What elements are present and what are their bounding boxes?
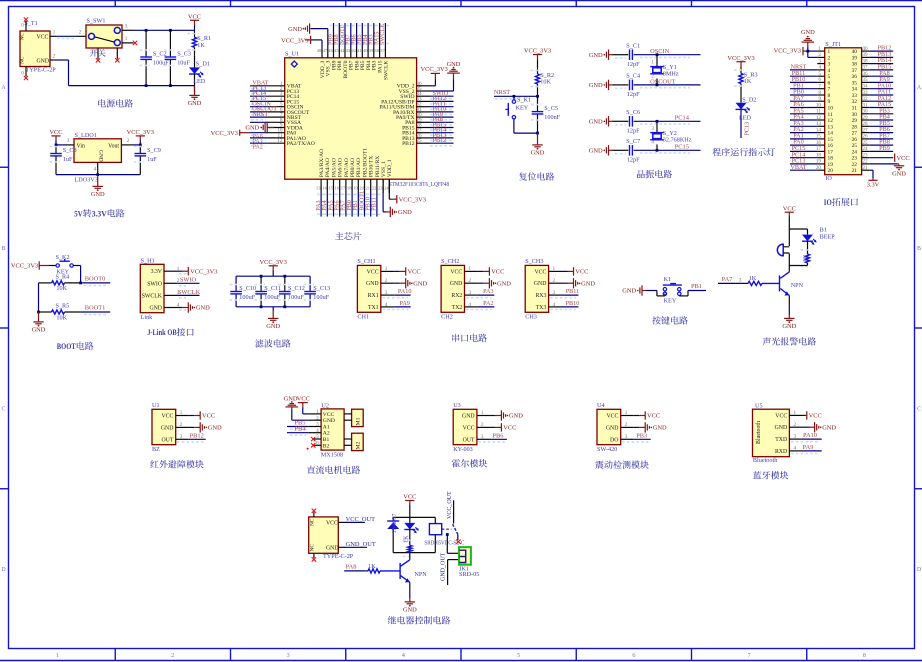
JT1 row 12/29 bbox=[817, 119, 824, 121]
svg-text:VCC: VCC bbox=[37, 34, 49, 40]
svg-text:3.3V: 3.3V bbox=[151, 269, 163, 275]
relay top/bottom rails bbox=[393, 516, 435, 518]
ground bbox=[38, 312, 40, 321]
svg-text:PB2/BOOT1: PB2/BOOT1 bbox=[362, 148, 368, 177]
svg-text:MX1508: MX1508 bbox=[321, 451, 343, 458]
svg-text:VCC: VCC bbox=[897, 155, 910, 162]
svg-text:18: 18 bbox=[347, 185, 352, 190]
svg-text:2: 2 bbox=[79, 30, 82, 36]
power VCC_3V3 bbox=[136, 135, 145, 137]
svg-text:Bluetooth: Bluetooth bbox=[753, 457, 778, 464]
svg-text:S_U1: S_U1 bbox=[285, 51, 299, 58]
svg-text:GND: GND bbox=[91, 191, 105, 198]
U1 pin 25 PB12 bbox=[417, 142, 430, 144]
wire T1 VCC to SW1 bbox=[57, 38, 74, 40]
svg-text:VCC: VCC bbox=[503, 425, 516, 432]
svg-text:PC15: PC15 bbox=[675, 144, 689, 151]
power VCC pin1 S_CH1 bbox=[394, 270, 400, 272]
svg-text:TX1: TX1 bbox=[368, 305, 379, 311]
svg-text:39: 39 bbox=[862, 52, 868, 58]
svg-text:PA7/AO: PA7/AO bbox=[344, 158, 350, 177]
net PC14 bbox=[634, 120, 701, 122]
U1 pin 24 VDD_1 bbox=[388, 179, 390, 193]
svg-text:25: 25 bbox=[862, 140, 868, 146]
U1 pin 5 OSCIN bbox=[267, 106, 284, 108]
svg-text:31: 31 bbox=[852, 106, 858, 112]
svg-text:VCC: VCC bbox=[403, 494, 416, 501]
svg-text:39: 39 bbox=[852, 55, 858, 61]
svg-text:PB12: PB12 bbox=[433, 137, 447, 144]
svg-text:4: 4 bbox=[794, 446, 797, 452]
svg-text:1K: 1K bbox=[749, 275, 757, 282]
svg-text:S_D2: S_D2 bbox=[742, 96, 756, 103]
svg-text:S_SW1: S_SW1 bbox=[87, 17, 106, 24]
svg-text:PB6: PB6 bbox=[492, 432, 503, 439]
svg-text:U2: U2 bbox=[321, 402, 329, 409]
ground pin2 U4 bbox=[634, 426, 640, 428]
svg-text:VCC: VCC bbox=[606, 414, 618, 420]
U1 pin 29 PA8 bbox=[417, 121, 430, 123]
svg-text:PB0/AO: PB0/AO bbox=[350, 158, 356, 177]
svg-text:VDD_1: VDD_1 bbox=[387, 159, 393, 177]
GND bbox=[177, 307, 183, 309]
svg-text:VCC_OUT: VCC_OUT bbox=[346, 516, 376, 523]
svg-text:3: 3 bbox=[67, 138, 70, 144]
U1 pin 36 VDD_2 bbox=[417, 85, 430, 87]
svg-text:VCC: VCC bbox=[367, 269, 379, 275]
svg-text:IO: IO bbox=[825, 175, 832, 182]
svg-text:1: 1 bbox=[651, 60, 654, 66]
svg-text:1uF: 1uF bbox=[147, 156, 157, 163]
U1 pin 42 PB6 bbox=[356, 47, 358, 58]
power VCC_3V3 row1 bbox=[803, 50, 808, 52]
svg-text:1K: 1K bbox=[802, 254, 809, 262]
svg-text:4: 4 bbox=[468, 302, 471, 308]
svg-text:18: 18 bbox=[828, 156, 834, 162]
svg-text:SWCLK: SWCLK bbox=[383, 61, 389, 81]
svg-text:PB10: PB10 bbox=[566, 300, 580, 307]
power VCC_3V3 bbox=[269, 265, 278, 267]
net PC15 bbox=[634, 149, 701, 151]
capacitor S_C12 100nF bbox=[284, 276, 286, 291]
JT1 row 20/21 bbox=[817, 169, 824, 171]
svg-text:5: 5 bbox=[818, 71, 821, 77]
svg-text:S_R5: S_R5 bbox=[56, 303, 70, 310]
caption 红外避障模块 bbox=[150, 460, 158, 468]
svg-text:S_CH2: S_CH2 bbox=[441, 258, 459, 265]
svg-text:GND: GND bbox=[98, 150, 104, 162]
svg-text:VCC: VCC bbox=[463, 425, 475, 431]
svg-text:Link: Link bbox=[141, 314, 154, 321]
JT1 row 7/34 bbox=[817, 88, 824, 90]
svg-text:SRD-05: SRD-05 bbox=[459, 571, 479, 578]
svg-text:12pF: 12pF bbox=[627, 91, 640, 98]
svg-text:VCC_3V3: VCC_3V3 bbox=[190, 268, 217, 275]
svg-text:14: 14 bbox=[828, 131, 834, 137]
capacitor S_C6 12pF bbox=[608, 116, 610, 126]
wire T1 GND down to bottom rail bbox=[56, 59, 69, 61]
svg-text:B2: B2 bbox=[323, 443, 330, 449]
svg-text:40: 40 bbox=[363, 48, 368, 53]
svg-text:S_JT1: S_JT1 bbox=[825, 41, 841, 48]
transistor NPN bbox=[788, 266, 790, 272]
top rail VCC bbox=[133, 29, 195, 31]
svg-text:B1: B1 bbox=[820, 226, 827, 233]
VSS_2 to GND bbox=[430, 90, 454, 92]
svg-text:S_LDO1: S_LDO1 bbox=[75, 132, 97, 139]
U1 pin 32 PA11/USB/DM bbox=[417, 106, 430, 108]
svg-text:6: 6 bbox=[632, 653, 635, 659]
svg-text:5V: 5V bbox=[74, 209, 83, 218]
connector S_CH3 bbox=[525, 265, 548, 312]
net PB5 bbox=[287, 426, 308, 428]
svg-text:GND: GND bbox=[403, 607, 417, 614]
power VCC row18 bbox=[869, 157, 893, 159]
JT1 row 9/32 bbox=[817, 100, 824, 102]
relay switch bbox=[442, 528, 452, 530]
svg-text:12pF: 12pF bbox=[627, 157, 640, 164]
svg-text:3: 3 bbox=[287, 653, 290, 659]
crystal S_Y1 8MHz bbox=[656, 53, 659, 56]
net PA9 bbox=[394, 306, 410, 308]
svg-text:PC14: PC14 bbox=[675, 115, 690, 122]
svg-text:CH3: CH3 bbox=[525, 314, 537, 321]
svg-text:TX2: TX2 bbox=[452, 305, 463, 311]
svg-text:100uF: 100uF bbox=[264, 294, 280, 301]
svg-text:100nF: 100nF bbox=[544, 114, 560, 121]
svg-text:PB11/RX: PB11/RX bbox=[375, 156, 381, 178]
svg-text:2: 2 bbox=[818, 52, 821, 58]
JT1 row 6/35 bbox=[817, 81, 824, 83]
svg-text:2: 2 bbox=[828, 55, 831, 61]
svg-text:10K: 10K bbox=[56, 285, 67, 292]
capacitor S_C3 10uF bbox=[169, 30, 171, 57]
svg-text:S_C5: S_C5 bbox=[544, 105, 558, 112]
svg-text:34: 34 bbox=[852, 87, 858, 93]
svg-text:PA2: PA2 bbox=[483, 300, 493, 307]
node split bbox=[789, 228, 807, 230]
svg-text:30: 30 bbox=[852, 112, 858, 118]
svg-text:NC: NC bbox=[309, 518, 315, 526]
svg-text:3: 3 bbox=[818, 58, 821, 64]
svg-text:100uF: 100uF bbox=[313, 294, 329, 301]
resistor S_R1 1K bbox=[194, 30, 196, 37]
svg-text:B: B bbox=[1, 246, 5, 252]
base resistor 1K bbox=[718, 282, 744, 284]
U1 pin 6 OSCOUT bbox=[267, 111, 284, 113]
svg-text:B1: B1 bbox=[323, 437, 330, 443]
U1 pin 35 VSS_2 bbox=[417, 90, 430, 92]
svg-text:PA9: PA9 bbox=[803, 444, 814, 451]
svg-text:2: 2 bbox=[553, 278, 556, 284]
svg-text:SW-420: SW-420 bbox=[597, 446, 617, 453]
svg-text:NPN: NPN bbox=[414, 571, 427, 578]
JT1 row 16/25 bbox=[817, 144, 824, 146]
svg-text:KEY: KEY bbox=[516, 104, 529, 111]
svg-text:2: 2 bbox=[625, 422, 628, 428]
svg-text:LED: LED bbox=[193, 78, 206, 85]
svg-text:VCC: VCC bbox=[575, 269, 588, 276]
net PC13 bbox=[740, 112, 742, 138]
svg-text:SWIO: SWIO bbox=[180, 277, 197, 284]
svg-text:SRD-05VDC-SL-C: SRD-05VDC-SL-C bbox=[424, 539, 464, 546]
svg-text:GND: GND bbox=[161, 425, 174, 431]
caption 滤波电路 bbox=[255, 339, 263, 347]
svg-text:VCC_3V3: VCC_3V3 bbox=[421, 66, 448, 73]
svg-text:GND: GND bbox=[534, 281, 547, 287]
svg-text:2: 2 bbox=[794, 422, 797, 428]
MCU S_U1 STM32F103C8T6_LQFP48 bbox=[285, 58, 417, 179]
net PB10 bbox=[562, 306, 578, 308]
JT1 row 4/37 bbox=[817, 69, 824, 71]
svg-text:24: 24 bbox=[852, 149, 858, 155]
ground bbox=[788, 296, 790, 305]
svg-text:SWIO: SWIO bbox=[147, 281, 162, 287]
svg-text:NRST: NRST bbox=[252, 111, 268, 118]
svg-text:PB11: PB11 bbox=[371, 197, 378, 211]
JT1 row 19/22 bbox=[817, 163, 824, 165]
JT1 row 1/40 bbox=[817, 50, 824, 52]
svg-text:13: 13 bbox=[828, 124, 834, 130]
svg-text:NPN: NPN bbox=[791, 282, 804, 289]
svg-text:VCC: VCC bbox=[202, 413, 215, 420]
svg-text:SWCLK: SWCLK bbox=[178, 289, 201, 296]
svg-text:GND: GND bbox=[326, 546, 339, 552]
net PA2 bbox=[478, 306, 494, 308]
svg-text:5: 5 bbox=[517, 653, 520, 659]
net PB3 bbox=[634, 438, 651, 440]
svg-text:GND_OUT: GND_OUT bbox=[441, 552, 447, 581]
svg-text:S_CH3: S_CH3 bbox=[525, 258, 543, 265]
svg-text:1K: 1K bbox=[744, 78, 752, 85]
caption 震动检测模块 bbox=[595, 461, 603, 469]
svg-text:GND: GND bbox=[413, 280, 427, 287]
svg-text:23: 23 bbox=[378, 185, 383, 190]
svg-text:2: 2 bbox=[53, 53, 56, 59]
ground pin2 S_CH2 bbox=[478, 282, 484, 284]
caption 按键电路 bbox=[652, 316, 661, 324]
U1 pin 43 PB7 bbox=[350, 47, 352, 58]
power VCC pin1 S_CH2 bbox=[478, 270, 484, 272]
svg-text:3: 3 bbox=[180, 434, 183, 440]
svg-text:3: 3 bbox=[553, 290, 556, 296]
U1 pin 30 PA9/TX bbox=[417, 116, 430, 118]
svg-text:GND: GND bbox=[782, 323, 796, 330]
svg-text:1: 1 bbox=[481, 410, 484, 416]
svg-text:PA9: PA9 bbox=[399, 300, 409, 307]
svg-text:GND: GND bbox=[801, 29, 815, 36]
svg-text:16: 16 bbox=[335, 185, 340, 190]
svg-text:PA4/AO: PA4/AO bbox=[325, 158, 331, 177]
JT1 row 17/24 bbox=[817, 150, 824, 152]
svg-text:GND: GND bbox=[245, 125, 259, 132]
capacitor S_C5 100nF bbox=[537, 96, 539, 111]
power GND row19 bbox=[869, 163, 897, 165]
resistor S_R3 1K bbox=[740, 72, 742, 75]
module U4 SW-420 bbox=[597, 409, 621, 444]
svg-text:2: 2 bbox=[127, 138, 130, 144]
svg-text:BOOT1: BOOT1 bbox=[85, 305, 106, 312]
svg-text:DO: DO bbox=[610, 437, 618, 443]
svg-text:13: 13 bbox=[316, 185, 321, 190]
VDD_1 to VCC_3V3 bbox=[388, 179, 390, 199]
svg-text:3: 3 bbox=[651, 126, 654, 132]
U1 pin 2 PC13 bbox=[267, 90, 284, 92]
svg-text:GND: GND bbox=[589, 148, 603, 155]
svg-text:S_R4: S_R4 bbox=[56, 274, 70, 281]
svg-text:PB10/TX: PB10/TX bbox=[369, 156, 375, 177]
svg-text:GND: GND bbox=[581, 280, 595, 287]
caption 晶振电路 bbox=[637, 170, 645, 178]
svg-text:U5: U5 bbox=[755, 403, 763, 410]
svg-text:12: 12 bbox=[277, 138, 283, 144]
svg-text:GND: GND bbox=[775, 425, 788, 431]
svg-text:BZ: BZ bbox=[152, 446, 160, 453]
VSS_3 to GND bbox=[327, 29, 329, 47]
svg-text:3: 3 bbox=[481, 434, 484, 440]
U1 pin 9 VDDA bbox=[267, 127, 284, 129]
svg-text:PA8: PA8 bbox=[346, 564, 357, 571]
svg-text:12pF: 12pF bbox=[627, 61, 640, 68]
svg-text:100uF: 100uF bbox=[153, 59, 169, 66]
svg-text:OSCIN: OSCIN bbox=[650, 48, 670, 55]
svg-text:A: A bbox=[1, 85, 6, 91]
svg-text:10uF: 10uF bbox=[177, 59, 190, 66]
svg-text:34: 34 bbox=[862, 84, 868, 90]
svg-text:VCC_3V3: VCC_3V3 bbox=[281, 37, 308, 44]
U1 pin 15 PA5/AO bbox=[333, 179, 335, 193]
caption 蓝牙模块 bbox=[753, 471, 761, 479]
svg-text:S_C7: S_C7 bbox=[626, 138, 640, 145]
svg-text:S_C3: S_C3 bbox=[177, 51, 191, 58]
svg-text:U3: U3 bbox=[453, 402, 461, 409]
svg-text:GND: GND bbox=[32, 327, 46, 334]
svg-text:35: 35 bbox=[862, 77, 868, 83]
svg-text:OUT: OUT bbox=[161, 437, 173, 443]
svg-text:C: C bbox=[1, 407, 5, 413]
svg-text:41: 41 bbox=[357, 48, 362, 53]
svg-text:VCC: VCC bbox=[809, 413, 822, 420]
net PB12 bbox=[189, 438, 206, 440]
svg-text:23: 23 bbox=[862, 153, 868, 159]
power VCC pin1 S_CH3 bbox=[562, 270, 568, 272]
U1 pin 27 PB14 bbox=[417, 132, 430, 134]
svg-text:NC: NC bbox=[309, 544, 315, 552]
svg-text:GND: GND bbox=[653, 425, 667, 432]
svg-text:29: 29 bbox=[852, 118, 858, 124]
svg-text:4: 4 bbox=[828, 68, 831, 74]
svg-text:40: 40 bbox=[852, 49, 858, 55]
svg-text:4: 4 bbox=[818, 65, 821, 71]
svg-text:26: 26 bbox=[852, 137, 858, 143]
svg-text:12: 12 bbox=[828, 118, 834, 124]
capacitor S_C2 100uF bbox=[145, 30, 147, 57]
svg-text:2: 2 bbox=[171, 653, 174, 659]
svg-text:GND: GND bbox=[284, 396, 298, 403]
svg-text:S_C11: S_C11 bbox=[264, 285, 281, 292]
svg-text:BEEP: BEEP bbox=[820, 234, 836, 241]
svg-text:2: 2 bbox=[481, 422, 484, 428]
U1 pin 4 PC15 bbox=[267, 100, 284, 102]
net BOOT1 bbox=[81, 311, 111, 313]
svg-text:VCC_OUT: VCC_OUT bbox=[447, 491, 453, 519]
key circuit K1 bbox=[641, 285, 643, 295]
capacitor S_C8 1uF bbox=[55, 145, 57, 154]
power VCC_3V3 bbox=[533, 54, 542, 56]
power VCC pin1 U1 bbox=[189, 415, 195, 417]
svg-text:GND: GND bbox=[37, 58, 50, 64]
svg-text:PB1: PB1 bbox=[691, 283, 702, 290]
svg-text:CH2: CH2 bbox=[441, 314, 453, 321]
U1 pin 12 PA2/TX/AO bbox=[267, 142, 284, 144]
svg-text:27: 27 bbox=[862, 127, 868, 133]
svg-text:PB1/AO: PB1/AO bbox=[356, 158, 362, 177]
svg-text:31: 31 bbox=[862, 102, 868, 108]
svg-text:1K: 1K bbox=[403, 535, 410, 543]
svg-text:22: 22 bbox=[372, 185, 377, 190]
svg-text:BOOT: BOOT bbox=[57, 342, 76, 351]
svg-text:15: 15 bbox=[328, 185, 333, 190]
svg-text:100uF: 100uF bbox=[239, 294, 255, 301]
B1 B2 no connect bbox=[314, 438, 322, 440]
svg-text:VCC: VCC bbox=[408, 269, 421, 276]
svg-text:21: 21 bbox=[852, 168, 858, 174]
svg-text:S_C9: S_C9 bbox=[147, 147, 161, 154]
svg-text:3: 3 bbox=[794, 434, 797, 440]
capacitor S_C4 12pF bbox=[608, 80, 610, 90]
svg-text:S_C1: S_C1 bbox=[626, 42, 640, 49]
net PB4 bbox=[287, 432, 308, 434]
3.3V row20 bbox=[869, 169, 873, 171]
svg-text:GND: GND bbox=[196, 305, 210, 312]
U1 pin 8 VSSA bbox=[267, 121, 284, 123]
caption 复位电路 bbox=[519, 172, 527, 180]
svg-text:PB9: PB9 bbox=[879, 145, 890, 152]
svg-text:VCC_3V3: VCC_3V3 bbox=[727, 55, 754, 62]
svg-text:GND: GND bbox=[589, 52, 603, 59]
svg-text:19: 19 bbox=[828, 162, 834, 168]
svg-text:GND: GND bbox=[589, 82, 603, 89]
svg-text:1: 1 bbox=[553, 266, 556, 272]
svg-text:TX3: TX3 bbox=[536, 305, 547, 311]
net PB11 bbox=[562, 294, 578, 296]
capacitor S_C9 1uF bbox=[139, 145, 141, 154]
svg-text:RX3: RX3 bbox=[535, 293, 546, 299]
power VCC bbox=[51, 135, 60, 137]
U1 pin 39 PB3 bbox=[373, 47, 375, 58]
svg-text:3: 3 bbox=[385, 290, 388, 296]
JT1 row 14/27 bbox=[817, 132, 824, 134]
wire left rail bbox=[38, 283, 40, 312]
svg-text:28: 28 bbox=[852, 124, 858, 130]
U1 pin 23 VSS_1 bbox=[382, 179, 384, 193]
svg-text:37: 37 bbox=[862, 65, 868, 71]
svg-text:1: 1 bbox=[625, 410, 628, 416]
svg-text:23: 23 bbox=[852, 156, 858, 162]
U1 pin 10 PA0 bbox=[267, 132, 284, 134]
svg-text:GND: GND bbox=[892, 171, 906, 178]
VSS_1 to GND bbox=[382, 179, 384, 193]
svg-text:22: 22 bbox=[862, 159, 868, 165]
svg-text:27: 27 bbox=[852, 131, 858, 137]
svg-text:J-Link OB: J-Link OB bbox=[147, 328, 177, 337]
U1 pin 31 PA10/RX bbox=[417, 111, 430, 113]
svg-text:1: 1 bbox=[828, 49, 831, 55]
svg-text:9: 9 bbox=[828, 99, 831, 105]
svg-text:2: 2 bbox=[385, 278, 388, 284]
ground pin1 U3 bbox=[490, 415, 496, 417]
svg-text:S_CH1: S_CH1 bbox=[357, 258, 375, 265]
